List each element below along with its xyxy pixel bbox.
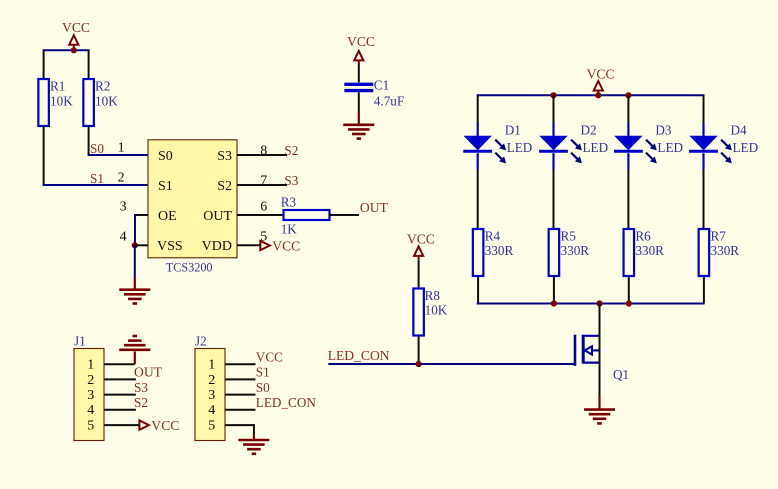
label OUT at J1 bbox=[134, 365, 163, 380]
ground Q1 bbox=[584, 410, 615, 424]
power VCC at R8 bbox=[407, 232, 435, 261]
pin 8 number bbox=[260, 144, 267, 159]
wire J1 pin3 (S3) bbox=[104, 394, 136, 396]
wire anode D1 bbox=[477, 95, 479, 136]
wire source to ground bbox=[599, 363, 601, 410]
LED D1 bbox=[463, 123, 532, 164]
capacitor C1 bbox=[344, 78, 404, 109]
svg-text:VCC: VCC bbox=[347, 34, 375, 49]
label LED_CON at J2 bbox=[256, 395, 317, 410]
LED D2 bbox=[539, 123, 608, 164]
wire OUT pin to R3 bbox=[237, 214, 284, 216]
svg-text:LED_CON: LED_CON bbox=[328, 348, 390, 363]
svg-text:S0: S0 bbox=[256, 380, 270, 395]
wire anode D4 bbox=[703, 95, 705, 136]
svg-text:VSS: VSS bbox=[157, 239, 183, 254]
wire R2 to S0 bbox=[88, 126, 90, 155]
wire R7 to rail bbox=[703, 276, 705, 304]
svg-text:1: 1 bbox=[118, 141, 125, 156]
svg-text:8: 8 bbox=[260, 144, 267, 159]
pin 7 number bbox=[260, 174, 267, 189]
svg-text:1K: 1K bbox=[281, 221, 298, 236]
svg-text:5: 5 bbox=[87, 419, 94, 434]
svg-text:4: 4 bbox=[120, 230, 127, 245]
resistor R5 bbox=[549, 228, 590, 276]
wire R4 to rail bbox=[477, 276, 479, 304]
svg-text:C1: C1 bbox=[374, 78, 389, 93]
resistor R1 bbox=[38, 79, 73, 127]
connector J2 bbox=[195, 334, 225, 441]
svg-text:R6: R6 bbox=[635, 228, 651, 243]
svg-text:2: 2 bbox=[208, 373, 215, 388]
svg-text:S3: S3 bbox=[217, 149, 232, 164]
svg-text:R4: R4 bbox=[485, 228, 501, 243]
junction bottom rail R6 bbox=[626, 300, 632, 306]
connector J1 bbox=[74, 334, 104, 441]
wire cathode D3 bbox=[627, 153, 629, 229]
svg-text:S1: S1 bbox=[158, 179, 173, 194]
svg-text:VCC: VCC bbox=[151, 418, 179, 433]
power VCC at C1 bbox=[347, 34, 375, 65]
wire R6 to rail bbox=[628, 276, 630, 304]
svg-text:S1: S1 bbox=[256, 365, 270, 380]
label S2 net bbox=[284, 143, 298, 158]
pin 6 number bbox=[260, 200, 267, 215]
pin 1 number bbox=[118, 141, 125, 156]
wire net S0 bbox=[88, 154, 148, 156]
label VCC at J2 bbox=[256, 349, 283, 364]
svg-text:VCC: VCC bbox=[272, 238, 300, 253]
svg-text:S3: S3 bbox=[134, 380, 148, 395]
svg-text:S0: S0 bbox=[158, 149, 173, 164]
svg-text:OUT: OUT bbox=[134, 365, 163, 380]
svg-text:4: 4 bbox=[208, 403, 215, 418]
svg-text:S2: S2 bbox=[134, 395, 148, 410]
power VCC (R1/R2 pull-ups) bbox=[62, 20, 90, 49]
wire net S1 bbox=[43, 184, 148, 186]
wire VCC to R8 bbox=[418, 260, 420, 288]
junction LED_CON R8 bbox=[416, 361, 422, 367]
wire R3 to OUT label bbox=[330, 214, 360, 216]
wire OE to VSS junction bbox=[135, 214, 148, 245]
label S1 bbox=[90, 171, 104, 186]
wire cathode D2 bbox=[552, 153, 554, 229]
pin 4 number bbox=[120, 230, 127, 245]
wire VDD pin bbox=[237, 244, 260, 246]
wire S3 pin (net S2) bbox=[237, 154, 287, 156]
LED D4 bbox=[689, 123, 758, 164]
junction top rail D3 bbox=[625, 92, 631, 98]
LED D3 bbox=[614, 123, 683, 164]
wire drain bbox=[599, 304, 601, 363]
svg-text:D3: D3 bbox=[655, 123, 672, 138]
svg-text:LED: LED bbox=[657, 140, 683, 155]
resistor R3 bbox=[281, 194, 330, 236]
svg-text:R5: R5 bbox=[561, 228, 577, 243]
svg-text:VCC: VCC bbox=[256, 349, 283, 364]
junction top rail VCC bbox=[595, 92, 601, 98]
wire J1 pin5 (VCC) bbox=[104, 424, 139, 426]
svg-text:330R: 330R bbox=[711, 243, 740, 258]
svg-text:R2: R2 bbox=[95, 79, 110, 94]
svg-text:D2: D2 bbox=[581, 123, 597, 138]
ground J1 pin1 (up) bbox=[119, 336, 150, 350]
transistor Q1 bbox=[575, 335, 629, 382]
junction VCC tee bbox=[71, 47, 77, 53]
label OUT net bbox=[360, 200, 389, 215]
label LED_CON net bbox=[328, 348, 390, 363]
svg-text:OUT: OUT bbox=[360, 200, 389, 215]
svg-text:10K: 10K bbox=[95, 94, 118, 109]
svg-text:6: 6 bbox=[260, 200, 267, 215]
svg-text:3: 3 bbox=[208, 388, 215, 403]
wire VSS to ground bbox=[134, 245, 136, 289]
svg-text:2: 2 bbox=[87, 373, 94, 388]
wire J1 pin1 to ground bbox=[104, 352, 135, 365]
resistor R6 bbox=[624, 228, 665, 276]
svg-text:LED_CON: LED_CON bbox=[256, 395, 317, 410]
wire R5 to rail bbox=[553, 276, 555, 304]
svg-text:LED: LED bbox=[733, 140, 759, 155]
svg-text:1: 1 bbox=[208, 358, 215, 373]
label S0 at J2 bbox=[256, 380, 270, 395]
junction bottom rail R5 bbox=[551, 300, 557, 306]
svg-text:J1: J1 bbox=[74, 334, 86, 349]
svg-text:10K: 10K bbox=[50, 94, 73, 109]
ground J2 pin5 bbox=[238, 440, 269, 454]
wire J2 pin2 (S1) bbox=[225, 378, 256, 380]
svg-text:S1: S1 bbox=[90, 171, 104, 186]
label S1 at J2 bbox=[256, 365, 270, 380]
svg-text:R1: R1 bbox=[50, 79, 65, 94]
op-amp U1 TCS3200 bbox=[148, 140, 237, 258]
svg-text:R8: R8 bbox=[425, 288, 441, 303]
svg-text:LED: LED bbox=[507, 140, 533, 155]
svg-text:VCC: VCC bbox=[587, 67, 615, 82]
label S0 bbox=[90, 141, 104, 156]
wire cathode D4 bbox=[702, 153, 704, 229]
wire J1 pin2 (OUT) bbox=[104, 378, 136, 380]
power VCC at J1 bbox=[139, 418, 179, 433]
svg-text:D4: D4 bbox=[731, 123, 748, 138]
svg-text:Q1: Q1 bbox=[613, 367, 629, 382]
wire J2 pin5 to ground bbox=[225, 424, 254, 440]
wire J2 pin4 (LED_CON) bbox=[225, 409, 256, 411]
wire J2 pin1 (VCC) bbox=[225, 363, 256, 365]
svg-text:330R: 330R bbox=[561, 243, 590, 258]
label TCS3200 bbox=[166, 261, 213, 275]
svg-text:4: 4 bbox=[87, 403, 94, 418]
wire cathode D1 bbox=[477, 153, 479, 229]
svg-text:TCS3200: TCS3200 bbox=[166, 261, 213, 275]
svg-text:4.7uF: 4.7uF bbox=[374, 94, 404, 109]
wire S2 pin (net S3) bbox=[237, 173, 299, 188]
wire R8 to LED_CON bbox=[418, 336, 420, 365]
svg-text:OE: OE bbox=[158, 209, 177, 224]
resistor R7 bbox=[699, 228, 740, 276]
wire J1 pin4 (S2) bbox=[104, 409, 136, 411]
wire LED top rail bbox=[477, 94, 705, 96]
svg-text:2: 2 bbox=[118, 171, 125, 186]
ground VSS bbox=[119, 290, 150, 304]
svg-text:VCC: VCC bbox=[407, 232, 435, 247]
svg-text:10K: 10K bbox=[425, 303, 448, 318]
svg-text:R7: R7 bbox=[711, 228, 727, 243]
label S3 at J1 bbox=[134, 380, 148, 395]
svg-text:LED: LED bbox=[583, 140, 609, 155]
svg-text:330R: 330R bbox=[635, 243, 664, 258]
wire VCC tee (R1/R2 tops) bbox=[44, 49, 89, 79]
pin 5 number bbox=[260, 230, 267, 245]
svg-text:1: 1 bbox=[87, 358, 94, 373]
svg-text:7: 7 bbox=[260, 174, 267, 189]
svg-text:330R: 330R bbox=[485, 243, 514, 258]
resistor R2 bbox=[83, 79, 118, 127]
wire J2 pin3 (S0) bbox=[225, 394, 256, 396]
svg-text:3: 3 bbox=[120, 200, 127, 215]
wire R1 to S1 bbox=[43, 126, 45, 185]
svg-text:R3: R3 bbox=[281, 194, 297, 209]
svg-text:S2: S2 bbox=[284, 143, 298, 158]
svg-text:3: 3 bbox=[87, 388, 94, 403]
resistor R8 bbox=[413, 288, 447, 336]
svg-text:J2: J2 bbox=[195, 334, 207, 349]
junction VSS node bbox=[132, 242, 138, 248]
label S2 at J1 bbox=[134, 395, 148, 410]
svg-text:VCC: VCC bbox=[62, 20, 90, 35]
power VCC at VDD bbox=[260, 238, 300, 253]
wire LED bottom rail bbox=[477, 303, 705, 305]
power VCC LED rail bbox=[587, 67, 615, 96]
junction top rail D2 bbox=[550, 92, 556, 98]
svg-text:VDD: VDD bbox=[202, 239, 232, 254]
svg-text:D1: D1 bbox=[505, 123, 521, 138]
wire anode D2 bbox=[553, 95, 555, 136]
wire anode D3 bbox=[627, 95, 629, 136]
wire net LED_CON bbox=[328, 363, 575, 365]
resistor R4 bbox=[473, 228, 514, 276]
pin 2 number bbox=[118, 171, 125, 186]
pin 3 number bbox=[120, 200, 127, 215]
svg-text:S0: S0 bbox=[90, 141, 104, 156]
wire VSS pin bbox=[135, 244, 148, 246]
wire C1 to ground bbox=[358, 92, 360, 125]
wire VCC to C1 bbox=[358, 65, 360, 83]
svg-text:5: 5 bbox=[208, 419, 215, 434]
junction bottom rail drain bbox=[596, 300, 602, 306]
ground C1 bbox=[343, 125, 374, 139]
svg-text:OUT: OUT bbox=[203, 209, 232, 224]
svg-text:S2: S2 bbox=[217, 179, 232, 194]
